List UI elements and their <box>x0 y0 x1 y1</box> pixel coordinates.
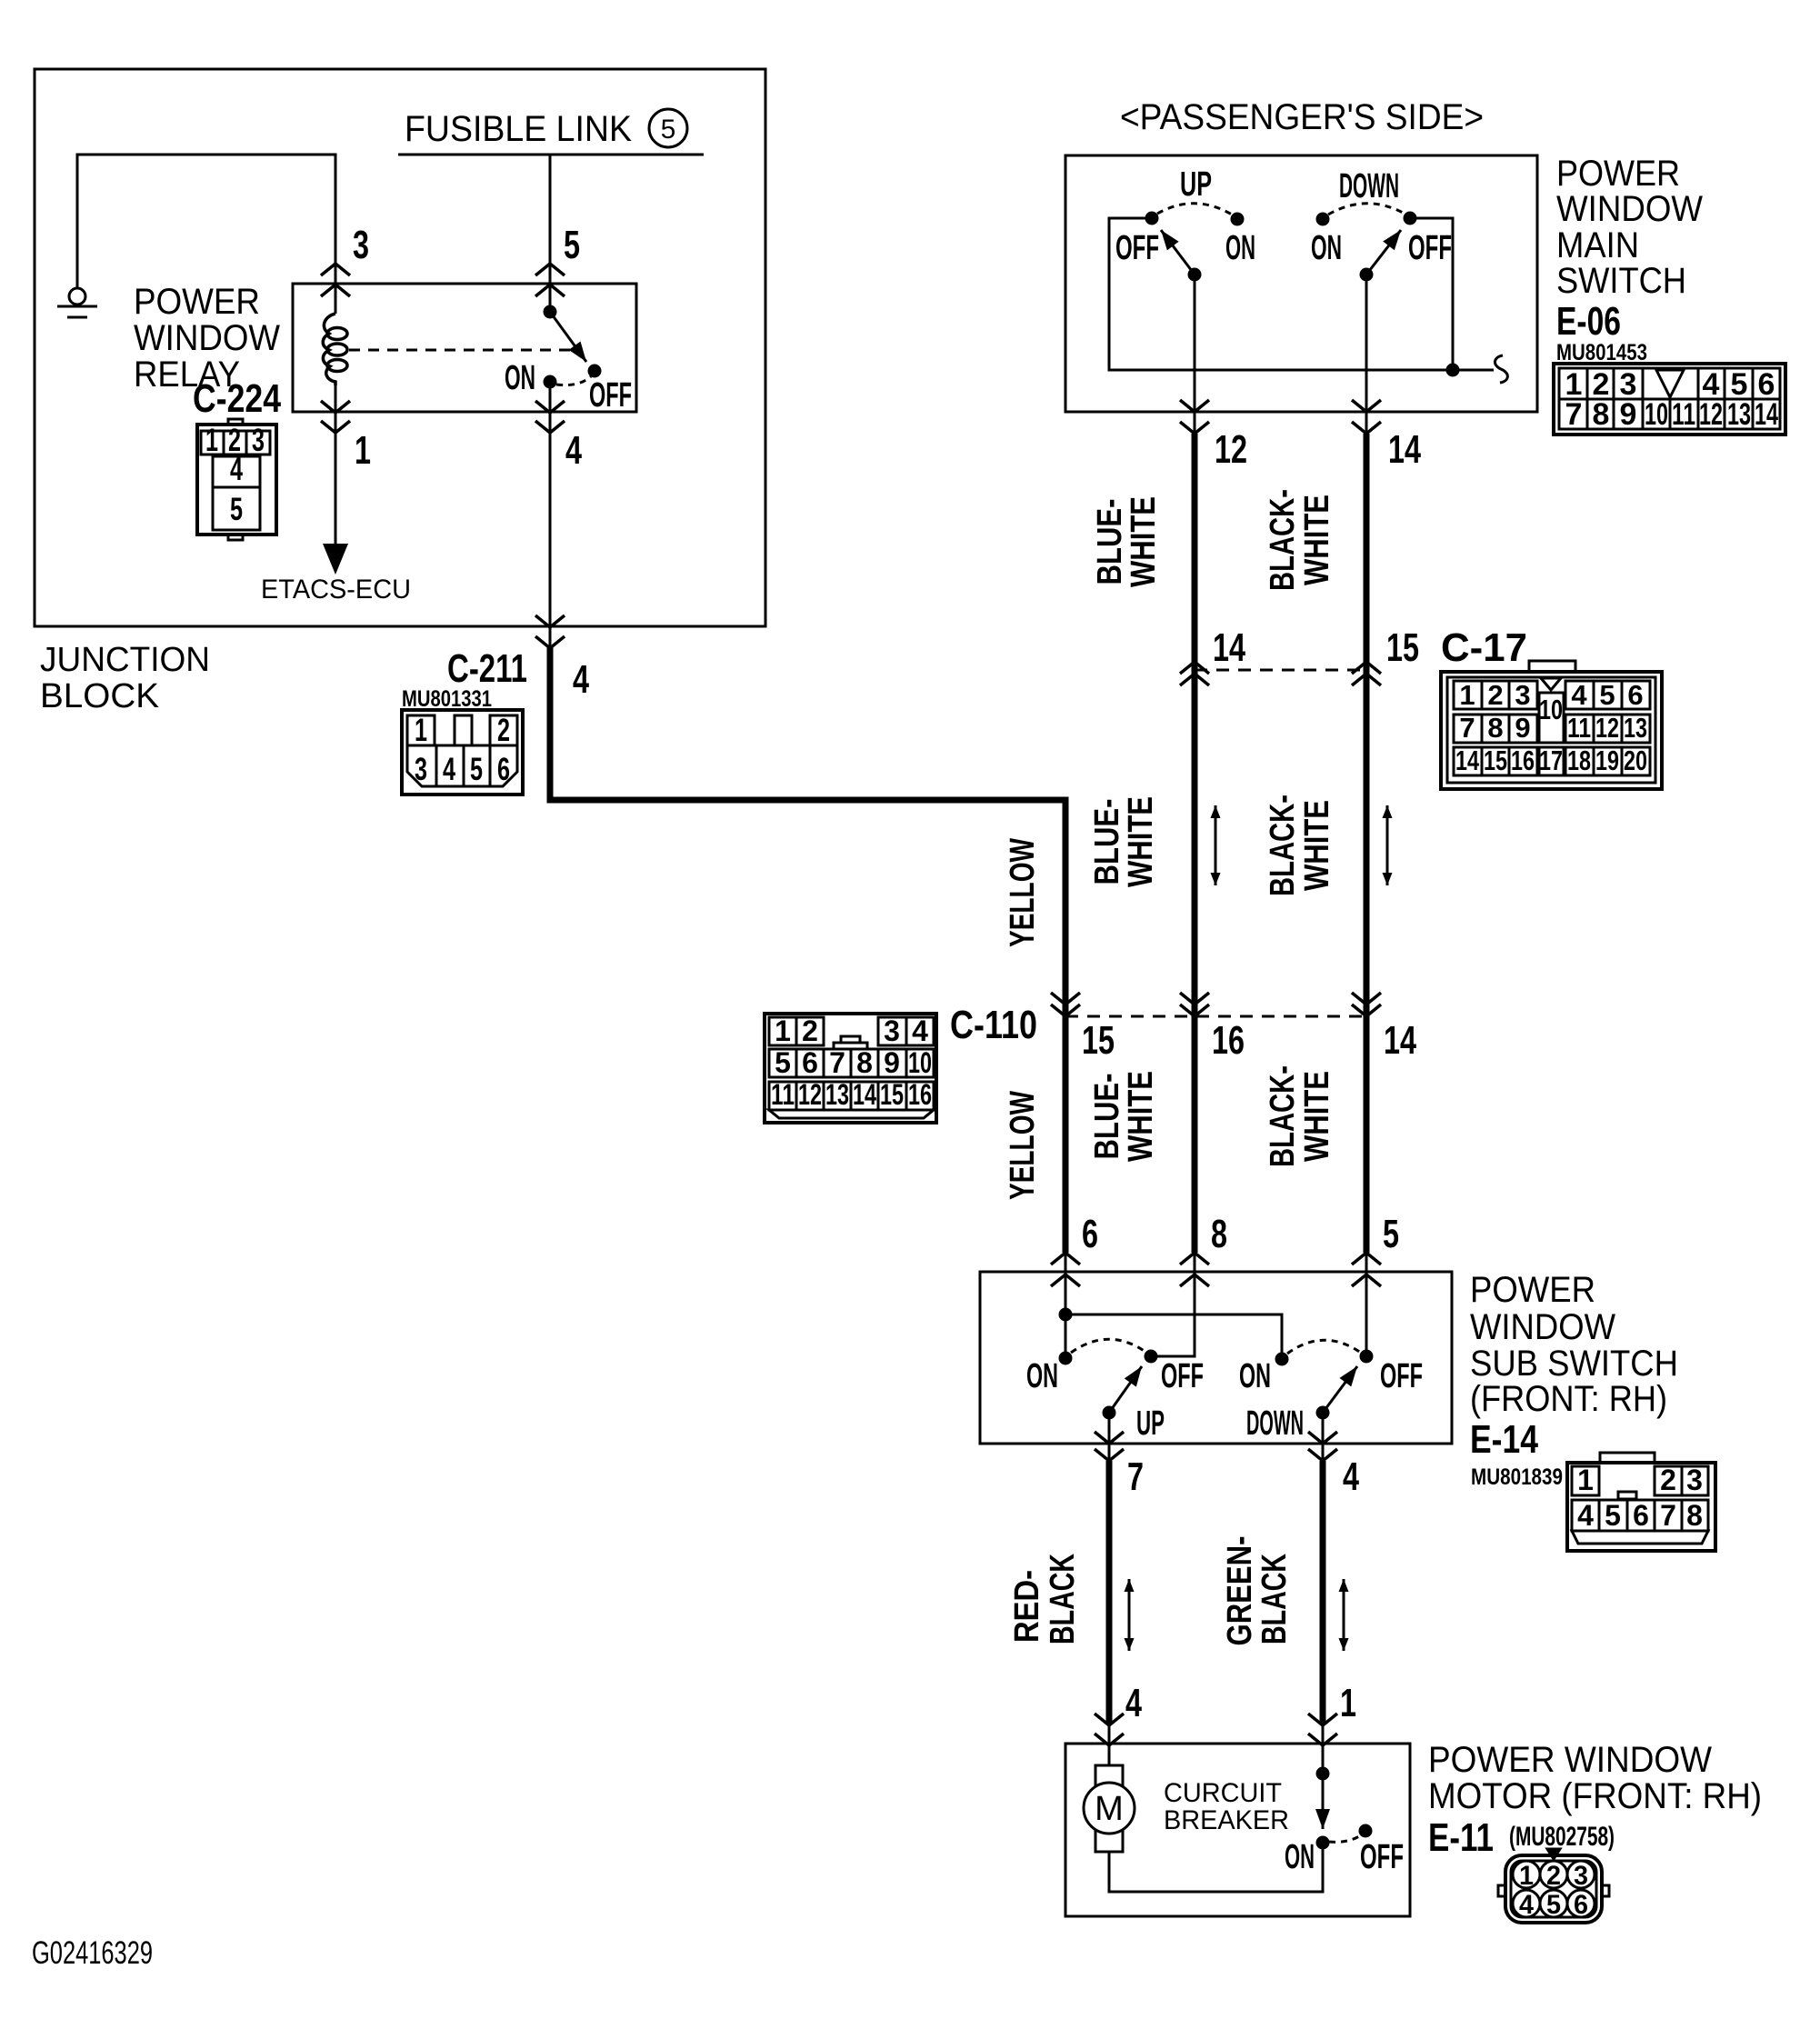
black-white chevrons at C-110 <box>1352 993 1381 1016</box>
pin 7 label <box>1127 1454 1144 1499</box>
pin 16 label at C-110 <box>1212 1018 1245 1063</box>
svg-text:5: 5 <box>1599 679 1615 711</box>
pin 12 label <box>1215 427 1247 472</box>
pin 15 label at C-17 <box>1386 625 1419 670</box>
svg-text:WHITE: WHITE <box>1298 1071 1336 1162</box>
pin 4 label at C-211 <box>573 657 589 702</box>
connector C-224 <box>197 419 276 540</box>
svg-text:2: 2 <box>1546 1861 1561 1891</box>
svg-text:2: 2 <box>802 1014 818 1047</box>
svg-text:1: 1 <box>205 423 218 458</box>
UP switch ON contact <box>1232 214 1243 225</box>
breaker OFF contact <box>1360 1825 1371 1836</box>
pin 3 chevrons <box>321 264 350 296</box>
wire UP common to pin 12 <box>1194 275 1196 436</box>
wire motor bottom loop <box>1109 1848 1323 1892</box>
label YELLOW section 2 <box>1004 838 1042 947</box>
svg-text:4: 4 <box>1577 1499 1594 1532</box>
label ON (breaker) <box>1285 1838 1315 1876</box>
svg-text:3: 3 <box>1574 1861 1588 1891</box>
svg-text:5: 5 <box>1383 1212 1399 1256</box>
svg-text:MU801453: MU801453 <box>1556 340 1647 365</box>
label MU801331 <box>402 686 492 712</box>
svg-text:BLUE-: BLUE- <box>1091 499 1129 585</box>
label OFF (sub right) <box>1380 1357 1423 1395</box>
motor M1 <box>1084 1765 1135 1852</box>
label UP <box>1180 165 1212 204</box>
svg-text:2: 2 <box>497 713 510 748</box>
svg-text:JUNCTION: JUNCTION <box>40 641 210 679</box>
svg-text:ETACS-ECU: ETACS-ECU <box>261 575 411 605</box>
svg-text:8: 8 <box>1487 712 1503 744</box>
svg-text:5: 5 <box>775 1046 791 1079</box>
wire red-black thick <box>1106 1461 1113 1724</box>
pin 5 label <box>564 223 580 267</box>
svg-text:2: 2 <box>1487 679 1503 711</box>
svg-text:11: 11 <box>771 1078 795 1111</box>
svg-text:12: 12 <box>1699 397 1723 432</box>
svg-text:WHITE: WHITE <box>1122 1071 1160 1162</box>
UP switch dashed arc <box>1157 204 1232 215</box>
pin 14 label <box>1388 427 1421 472</box>
label C-224 <box>193 376 281 421</box>
svg-text:13: 13 <box>1624 712 1647 744</box>
power window sub switch box E-14 <box>980 1272 1452 1444</box>
connector E-06 <box>1554 364 1785 435</box>
pin 5 chevrons <box>535 264 565 296</box>
black-white chevrons at sub switch <box>1352 1253 1381 1286</box>
wire sub left common to pin 7 <box>1108 1413 1111 1462</box>
wire black-white thick (C-17 to C-110) <box>1364 688 1370 1034</box>
label POWER WINDOW SUB SWITCH (FRONT: RH) <box>1470 1270 1678 1419</box>
svg-text:MU801839: MU801839 <box>1471 1464 1563 1490</box>
motor pin 1 chevrons <box>1308 1714 1337 1774</box>
svg-text:MOTOR (FRONT: RH): MOTOR (FRONT: RH) <box>1428 1776 1762 1816</box>
svg-text:MU801331: MU801331 <box>402 686 492 712</box>
wire green-black thick <box>1320 1461 1326 1724</box>
svg-text:C-110: C-110 <box>950 1003 1037 1047</box>
svg-text:11: 11 <box>1567 712 1591 744</box>
svg-text:14: 14 <box>853 1078 876 1111</box>
connector E-11 <box>1498 1849 1609 1923</box>
label C-211 <box>447 646 527 691</box>
updown arrow blue-white section 2 <box>1215 805 1217 885</box>
wire DOWN common to pin 14 <box>1365 275 1368 436</box>
wire blue-white thick (E-06 to C-17) <box>1192 434 1198 691</box>
wire yellow branch to right ON <box>1065 1314 1282 1359</box>
yellow chevrons at C-110 <box>1051 993 1080 1016</box>
label G02416329 <box>32 1935 153 1971</box>
svg-text:WINDOW: WINDOW <box>1470 1307 1615 1347</box>
svg-text:OFF: OFF <box>1115 229 1159 267</box>
label BLACK-WHITE section 3 <box>1264 1065 1336 1167</box>
svg-text:ON: ON <box>1285 1838 1315 1876</box>
main switch bus break squiggle <box>1453 355 1507 383</box>
junction block box <box>35 69 765 626</box>
svg-text:4: 4 <box>1343 1454 1359 1499</box>
wire yellow thick run 2 <box>1063 1033 1069 1253</box>
label RED-BLACK <box>1008 1554 1082 1644</box>
svg-text:WHITE: WHITE <box>1125 496 1163 587</box>
svg-text:(FRONT: RH): (FRONT: RH) <box>1470 1379 1667 1419</box>
svg-text:14: 14 <box>1755 397 1778 432</box>
sub left switch OFF contact <box>1145 1351 1156 1362</box>
svg-text:4: 4 <box>230 452 243 487</box>
svg-text:5: 5 <box>1546 1890 1561 1920</box>
motor pin 4 chevrons <box>1095 1714 1124 1765</box>
pin 14 label at C-17 <box>1213 625 1245 670</box>
label BLUE-WHITE section 1 <box>1091 496 1163 587</box>
svg-text:BLACK: BLACK <box>1255 1554 1294 1644</box>
label ETACS-ECU <box>261 575 411 605</box>
svg-text:POWER: POWER <box>1556 154 1680 194</box>
C-17 crossing dashed line <box>1195 669 1366 672</box>
svg-text:3: 3 <box>1515 679 1530 711</box>
label BLUE-WHITE section 3 <box>1088 1071 1160 1162</box>
updown arrow black-white section 2 <box>1386 805 1389 885</box>
connector C-17 <box>1441 661 1662 789</box>
svg-text:3: 3 <box>252 423 265 458</box>
svg-text:10: 10 <box>1645 397 1668 432</box>
pin 5 label at sub switch <box>1383 1212 1399 1256</box>
label OFF (UP switch) <box>1115 229 1159 267</box>
relay box <box>293 284 636 412</box>
label MU801839 <box>1471 1464 1563 1490</box>
label OFF (sub left) <box>1161 1357 1204 1395</box>
svg-text:UP: UP <box>1136 1404 1165 1443</box>
sub left switch ON contact <box>1060 1353 1071 1364</box>
svg-text:15: 15 <box>1082 1018 1115 1063</box>
svg-text:ON: ON <box>1311 229 1342 267</box>
svg-text:WHITE: WHITE <box>1298 495 1336 585</box>
UP switch arm <box>1161 230 1195 275</box>
ground <box>57 288 97 317</box>
svg-text:1: 1 <box>355 428 371 473</box>
C-110 crossing dashed line <box>1065 1015 1366 1018</box>
svg-text:10: 10 <box>908 1046 932 1079</box>
svg-text:1: 1 <box>775 1014 791 1047</box>
DOWN switch ON contact <box>1317 214 1328 225</box>
breaker junction dot <box>1317 1768 1328 1779</box>
svg-text:16: 16 <box>1212 1018 1245 1063</box>
label C-17 <box>1441 625 1527 670</box>
fusible link bus line <box>398 154 704 156</box>
DOWN switch dashed arc <box>1328 204 1405 215</box>
UP switch OFF contact <box>1146 213 1157 224</box>
svg-text:16: 16 <box>1511 745 1535 776</box>
updown arrow green-black <box>1343 1579 1345 1651</box>
svg-text:6: 6 <box>1627 679 1643 711</box>
svg-text:BLACK-: BLACK- <box>1264 489 1302 591</box>
svg-text:DOWN: DOWN <box>1246 1404 1304 1443</box>
breaker ON contact <box>1317 1837 1328 1848</box>
svg-text:E-06: E-06 <box>1556 299 1621 344</box>
wire black-white thick (C-110 to sub switch) <box>1364 1033 1370 1253</box>
pin 14 label at C-110 <box>1384 1018 1416 1063</box>
sub left switch dashed arc <box>1071 1339 1145 1353</box>
svg-text:OFF: OFF <box>589 376 632 415</box>
svg-text:YELLOW: YELLOW <box>1004 838 1042 947</box>
relay dashed link <box>349 349 575 352</box>
relay throw dashed arc <box>556 376 591 385</box>
svg-text:12: 12 <box>1595 712 1619 744</box>
svg-text:POWER: POWER <box>1470 1270 1595 1310</box>
svg-text:FUSIBLE LINK: FUSIBLE LINK <box>405 109 632 149</box>
svg-text:3: 3 <box>1686 1464 1703 1496</box>
pin 1 chevrons <box>321 401 350 433</box>
svg-text:12: 12 <box>1215 427 1247 472</box>
sub right switch ON contact <box>1276 1354 1287 1364</box>
svg-text:16: 16 <box>908 1078 932 1111</box>
label E-14 <box>1470 1417 1538 1462</box>
svg-text:13: 13 <box>825 1078 849 1111</box>
label OFF (breaker) <box>1360 1838 1404 1876</box>
svg-text:6: 6 <box>1633 1499 1649 1532</box>
svg-text:C-211: C-211 <box>447 646 527 691</box>
svg-text:3: 3 <box>415 752 427 787</box>
svg-text:UP: UP <box>1180 165 1212 204</box>
pin 7 chevrons <box>1095 1432 1124 1461</box>
wire relay pin 4 down <box>549 382 552 648</box>
svg-text:BLUE-: BLUE- <box>1088 1074 1126 1160</box>
label POWER WINDOW RELAY <box>134 282 280 395</box>
svg-text:WINDOW: WINDOW <box>134 318 280 358</box>
relay label ON <box>505 359 535 397</box>
svg-text:C-224: C-224 <box>193 376 281 421</box>
svg-text:ON: ON <box>1225 229 1255 267</box>
svg-text:6: 6 <box>802 1046 818 1079</box>
svg-text:BLACK: BLACK <box>1044 1554 1082 1644</box>
svg-text:C-17: C-17 <box>1441 625 1527 670</box>
label POWER WINDOW MAIN SWITCH <box>1556 154 1703 301</box>
svg-text:<PASSENGER'S SIDE>: <PASSENGER'S SIDE> <box>1120 97 1484 137</box>
yellow chevrons at sub switch <box>1051 1253 1080 1286</box>
pin 4 label at motor <box>1125 1681 1142 1725</box>
pin 14 chevrons <box>1352 400 1381 434</box>
label DOWN (sub right) <box>1246 1404 1304 1443</box>
DOWN switch arm <box>1366 230 1401 275</box>
svg-text:8: 8 <box>1593 397 1610 432</box>
breaker wire with arrow <box>1322 1774 1325 1829</box>
svg-text:1: 1 <box>1519 1861 1534 1891</box>
svg-text:SWITCH: SWITCH <box>1556 261 1686 301</box>
svg-text:17: 17 <box>1539 745 1563 776</box>
label CURCUIT BREAKER <box>1164 1778 1289 1835</box>
svg-text:1: 1 <box>1340 1681 1356 1725</box>
UP switch common contact <box>1189 269 1200 280</box>
svg-text:OFF: OFF <box>1380 1357 1423 1395</box>
junction block exit chevrons <box>535 615 565 648</box>
svg-text:5: 5 <box>230 492 243 527</box>
svg-text:3: 3 <box>353 223 369 267</box>
svg-text:10: 10 <box>1539 694 1563 725</box>
label BLUE-WHITE section 2 <box>1088 796 1160 887</box>
wire blue-white thick (C-17 to C-110) <box>1192 688 1198 1034</box>
svg-text:(MU802758): (MU802758) <box>1509 1822 1615 1852</box>
pin 4 chevrons at sub switch <box>1308 1432 1337 1461</box>
pin 4 label at sub switch <box>1343 1454 1359 1499</box>
blue-white chevrons at sub switch <box>1180 1253 1209 1286</box>
relay coil <box>323 314 347 385</box>
wire yellow inside sub switch <box>1065 1253 1067 1358</box>
label GREEN-BLACK <box>1221 1536 1294 1646</box>
label JUNCTION BLOCK <box>40 641 210 715</box>
label BLACK-WHITE section 2 <box>1264 795 1336 896</box>
svg-text:7: 7 <box>1660 1499 1676 1532</box>
svg-text:BLACK-: BLACK- <box>1264 1065 1302 1167</box>
label OFF (DOWN switch) <box>1408 229 1452 267</box>
wire sub right common to pin 4 <box>1322 1413 1325 1462</box>
main switch left rail wire <box>1109 218 1453 370</box>
pin 8 label at sub switch <box>1211 1212 1227 1256</box>
svg-text:1: 1 <box>1459 679 1475 711</box>
DOWN switch common contact <box>1361 269 1372 280</box>
svg-text:M: M <box>1095 1790 1124 1828</box>
svg-text:GREEN-: GREEN- <box>1221 1536 1259 1646</box>
svg-text:OFF: OFF <box>1360 1838 1404 1876</box>
wire yellow thick run <box>550 646 1065 1034</box>
svg-text:9: 9 <box>1620 397 1637 432</box>
svg-text:13: 13 <box>1727 397 1751 432</box>
svg-text:4: 4 <box>565 428 582 473</box>
label BLACK-WHITE section 1 <box>1264 489 1336 591</box>
svg-text:6: 6 <box>1082 1212 1098 1256</box>
svg-text:1: 1 <box>1577 1464 1594 1496</box>
label E-11 <box>1428 1815 1494 1860</box>
pin 12 chevrons <box>1180 400 1209 434</box>
svg-text:4: 4 <box>443 752 455 787</box>
blue-white chevrons at C-110 <box>1180 993 1209 1016</box>
pin 3 label <box>353 223 369 267</box>
connector C-211 <box>402 710 523 795</box>
pin 4 chevrons <box>535 401 565 433</box>
svg-text:POWER WINDOW: POWER WINDOW <box>1428 1740 1712 1780</box>
wire relay pin 1 to ETACS-ECU <box>335 384 337 545</box>
svg-text:E-14: E-14 <box>1470 1417 1538 1462</box>
svg-text:4: 4 <box>1571 679 1587 711</box>
label PASSENGER'S SIDE <box>1120 97 1484 137</box>
svg-text:14: 14 <box>1384 1018 1416 1063</box>
pin 6 label at sub switch <box>1082 1212 1098 1256</box>
svg-text:POWER: POWER <box>134 282 260 322</box>
svg-text:7: 7 <box>1565 397 1583 432</box>
blue-white chevrons at C-17 <box>1180 662 1209 685</box>
label UP (sub left) <box>1136 1404 1165 1443</box>
svg-text:4: 4 <box>912 1014 928 1047</box>
svg-text:4: 4 <box>1519 1890 1534 1920</box>
yellow junction dot <box>1060 1309 1071 1320</box>
svg-text:WINDOW: WINDOW <box>1556 189 1703 229</box>
svg-text:ON: ON <box>505 359 535 397</box>
label (MU802758) <box>1509 1822 1615 1852</box>
svg-text:OFF: OFF <box>1408 229 1452 267</box>
pin 4 label <box>565 428 582 473</box>
label ON (sub left) <box>1026 1357 1058 1395</box>
svg-text:E-11: E-11 <box>1428 1815 1494 1860</box>
svg-text:5: 5 <box>470 752 483 787</box>
svg-text:BLUE-: BLUE- <box>1088 799 1126 885</box>
svg-text:14: 14 <box>1388 427 1421 472</box>
svg-text:RED-: RED- <box>1008 1570 1046 1643</box>
label YELLOW section 3 <box>1004 1091 1042 1200</box>
svg-text:1: 1 <box>415 713 427 748</box>
sub right switch arm <box>1323 1366 1357 1413</box>
svg-text:15: 15 <box>1484 745 1507 776</box>
wire blue-white thick (C-110 to sub switch) <box>1192 1033 1198 1253</box>
pin 1 label <box>355 428 371 473</box>
label DOWN <box>1339 167 1399 205</box>
relay ON contact <box>545 376 555 387</box>
svg-text:5: 5 <box>1605 1499 1621 1532</box>
label POWER WINDOW MOTOR (FRONT: RH) <box>1428 1740 1762 1816</box>
sub left switch common contact <box>1104 1407 1115 1418</box>
label ON (UP switch) <box>1225 229 1255 267</box>
svg-text:7: 7 <box>1459 712 1475 744</box>
svg-text:BLOCK: BLOCK <box>40 677 159 715</box>
breaker dashed arc <box>1329 1835 1361 1842</box>
pin 15 label at C-110 <box>1082 1018 1115 1063</box>
svg-text:15: 15 <box>1386 625 1419 670</box>
power window main switch box E-06 <box>1065 155 1537 412</box>
svg-text:5: 5 <box>661 115 676 145</box>
svg-text:15: 15 <box>880 1078 904 1111</box>
svg-text:YELLOW: YELLOW <box>1004 1091 1042 1200</box>
svg-text:11: 11 <box>1672 397 1695 432</box>
svg-text:DOWN: DOWN <box>1339 167 1399 205</box>
svg-text:OFF: OFF <box>1161 1357 1204 1395</box>
svg-text:9: 9 <box>1515 712 1530 744</box>
svg-text:9: 9 <box>884 1046 900 1079</box>
power window motor box E-11 <box>1065 1744 1410 1916</box>
label ON (sub right) <box>1239 1357 1271 1395</box>
svg-text:6: 6 <box>497 752 510 787</box>
wire black-white thick (E-06 to C-17) <box>1364 434 1370 691</box>
DOWN switch OFF contact <box>1405 213 1415 224</box>
sub right switch common contact <box>1317 1407 1328 1418</box>
svg-text:2: 2 <box>1660 1464 1676 1496</box>
svg-text:BREAKER: BREAKER <box>1164 1805 1289 1835</box>
relay label OFF <box>589 376 632 415</box>
fusible link circled 5 <box>649 109 687 147</box>
svg-text:20: 20 <box>1624 745 1647 776</box>
svg-text:G02416329: G02416329 <box>32 1935 153 1971</box>
black-white chevrons at C-17 <box>1352 662 1381 685</box>
svg-text:3: 3 <box>884 1014 900 1047</box>
connector C-110 <box>765 1014 936 1123</box>
sub left switch arm <box>1109 1366 1142 1413</box>
svg-text:19: 19 <box>1595 745 1619 776</box>
wire black-white into sub switch <box>1365 1253 1368 1356</box>
label MU801453 <box>1556 340 1647 365</box>
svg-text:MAIN: MAIN <box>1556 225 1639 265</box>
svg-text:CURCUIT: CURCUIT <box>1164 1778 1282 1808</box>
sub right switch OFF contact <box>1361 1351 1372 1362</box>
svg-text:ON: ON <box>1239 1357 1271 1395</box>
label C-110 <box>950 1003 1037 1047</box>
svg-text:BLACK-: BLACK- <box>1264 795 1302 896</box>
ETACS-ECU arrow <box>323 544 348 575</box>
svg-text:14: 14 <box>1213 625 1245 670</box>
pin 1 label at motor <box>1340 1681 1356 1725</box>
svg-text:4: 4 <box>1125 1681 1142 1725</box>
label FUSIBLE LINK <box>405 109 632 149</box>
label ON (DOWN switch) <box>1311 229 1342 267</box>
relay switch arm <box>545 306 600 376</box>
wire fusible link to relay pin 5 <box>549 155 552 312</box>
svg-text:7: 7 <box>1127 1454 1144 1499</box>
svg-text:SUB SWITCH: SUB SWITCH <box>1470 1344 1678 1384</box>
svg-text:14: 14 <box>1455 745 1480 776</box>
